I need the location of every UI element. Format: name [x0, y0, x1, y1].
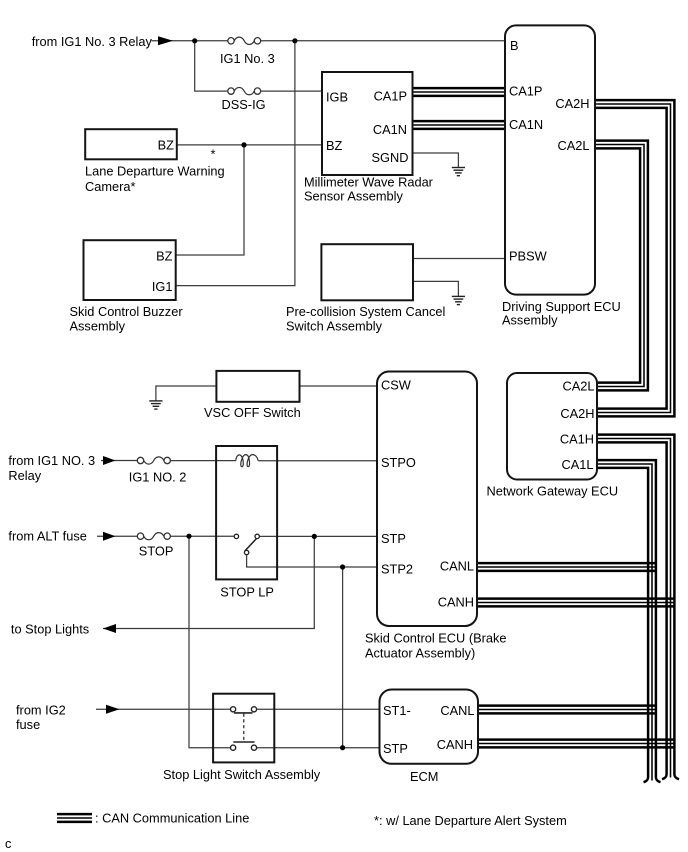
svg-text:CANL: CANL [440, 559, 474, 574]
svg-text:Skid Control Buzzer: Skid Control Buzzer [70, 304, 184, 319]
CAN bus CA1P radar to driving support ECU [413, 88, 506, 96]
wire STP2 branch to ECM STP [342, 567, 344, 748]
wire SGND to ground [413, 153, 459, 167]
arrow from IG1 NO.3 relay [103, 456, 116, 465]
junction node STP [312, 534, 317, 539]
svg-text:Sensor Assembly: Sensor Assembly [304, 189, 403, 204]
svg-text:CANL: CANL [440, 703, 474, 718]
svg-text:fuse: fuse [16, 717, 40, 732]
svg-text:PBSW: PBSW [509, 249, 548, 264]
svg-text:Assembly: Assembly [502, 313, 558, 328]
wire from IG1 No.3 Relay to fuse IG1 No.3 [152, 40, 228, 42]
svg-text:Stop Light Switch Assembly: Stop Light Switch Assembly [163, 767, 321, 782]
wire PBSW [413, 258, 505, 260]
svg-text:CA2L: CA2L [557, 138, 589, 153]
CAN bus CA2L driving support to network gateway [595, 141, 648, 391]
svg-text:IG1 NO. 2: IG1 NO. 2 [129, 470, 187, 485]
junction node top rail / DSS-IG [192, 38, 197, 43]
CAN bus CANH ECM [478, 740, 676, 748]
svg-text:CA1P: CA1P [509, 84, 542, 99]
svg-text:Millimeter Wave Radar: Millimeter Wave Radar [304, 175, 434, 190]
box network gateway ECU [507, 373, 597, 480]
svg-text:ST1-: ST1- [383, 703, 411, 718]
svg-text:CA1N: CA1N [509, 117, 543, 132]
svg-text:STP2: STP2 [381, 562, 413, 577]
legend CAN communication line sample [57, 814, 92, 822]
svg-text:CA2H: CA2H [560, 406, 594, 421]
switch stop light switch contacts [231, 707, 257, 751]
ground VSC OFF switch [149, 401, 162, 409]
ground SGND [452, 168, 465, 176]
CAN bus CANL ECM [478, 706, 657, 714]
svg-text:Camera*: Camera* [85, 179, 136, 194]
arrow from IG2 fuse [106, 705, 120, 714]
svg-text:ECM: ECM [410, 769, 438, 784]
wire switch to ECM STP [257, 747, 380, 749]
fuse DSS-IG [228, 87, 261, 94]
svg-text:Switch Assembly: Switch Assembly [286, 319, 383, 334]
junction node ECM STP [340, 745, 345, 750]
ground cancel switch [452, 296, 465, 304]
svg-text:from IG2: from IG2 [16, 703, 66, 718]
box skid control buzzer assembly [84, 240, 176, 300]
svg-text:STOP: STOP [139, 544, 174, 559]
svg-text:B: B [510, 38, 519, 53]
wire CSW [300, 385, 378, 387]
box VSC OFF switch [216, 371, 299, 402]
box lane departure warning camera [85, 129, 177, 159]
box STOP LP [216, 446, 277, 579]
box skid control ECU brake actuator assembly [377, 372, 477, 627]
svg-text:Skid Control ECU (Brake: Skid Control ECU (Brake [365, 631, 507, 646]
svg-text:: CAN Communication Line: : CAN Communication Line [95, 811, 249, 826]
CAN bus CA1L network gateway down [597, 460, 661, 782]
fuse IG1 No. 3 [228, 37, 261, 44]
svg-text:IGB: IGB [326, 89, 348, 104]
svg-text:VSC OFF Switch: VSC OFF Switch [204, 405, 301, 420]
svg-text:Pre-collision System Cancel: Pre-collision System Cancel [286, 304, 445, 319]
wire VSC OFF switch to ground [156, 386, 217, 401]
box pre-collision system cancel switch assembly [321, 244, 413, 300]
wire from IG1 NO.3 relay to fuse IG1 NO.2 [101, 460, 137, 462]
svg-text:BZ: BZ [156, 249, 173, 264]
svg-text:DSS-IG: DSS-IG [222, 97, 266, 112]
svg-text:STP: STP [381, 531, 406, 546]
wire fuse STOP to stop lp contact [170, 535, 234, 537]
svg-text:STP: STP [383, 741, 408, 756]
svg-text:Assembly: Assembly [70, 319, 126, 334]
svg-text:CSW: CSW [381, 378, 412, 393]
wire fuse IG1 NO.2 to coil [170, 460, 236, 462]
switch STOP LP contacts [234, 534, 259, 555]
wire coil to STPO [258, 460, 377, 462]
box millimeter wave radar sensor assembly [322, 72, 413, 175]
svg-text:CA1P: CA1P [374, 89, 407, 104]
fuse STOP [137, 533, 170, 540]
wire STP branch to stop lights [103, 536, 314, 628]
CAN bus CANL skid control ECU [477, 563, 657, 571]
svg-text:STPO: STPO [381, 455, 416, 470]
junction node BZ [241, 142, 246, 147]
CAN bus CA2H driving support to network gateway [595, 100, 674, 416]
svg-text:BZ: BZ [158, 137, 175, 152]
svg-text:STOP LP: STOP LP [220, 585, 274, 600]
junction node STP2 [340, 564, 345, 569]
svg-text:CA2L: CA2L [562, 379, 594, 394]
wire cancel switch to ground [413, 281, 458, 296]
box stop light switch assembly [213, 694, 274, 763]
svg-text:CANH: CANH [437, 737, 473, 752]
svg-text:Relay: Relay [8, 468, 41, 483]
svg-text:IG1: IG1 [152, 279, 173, 294]
wire from ALT fuse to fuse STOP [97, 535, 137, 537]
wire DSS-IG fuse to IGB pin [261, 90, 322, 92]
CAN bus CA1H network gateway down [597, 435, 679, 780]
svg-text:to Stop Lights: to Stop Lights [11, 622, 89, 637]
arrow from ALT fuse [103, 532, 116, 541]
svg-text:BZ: BZ [326, 138, 343, 153]
wire camera BZ to radar BZ [177, 144, 322, 146]
svg-text:*: w/ Lane Departure Alert Sys: *: w/ Lane Departure Alert System [374, 813, 567, 828]
wire stop lp to STP [259, 535, 377, 537]
CAN bus CA1N radar to driving support ECU [413, 121, 506, 129]
svg-text:CA1H: CA1H [560, 432, 594, 447]
svg-text:from IG1 NO. 3: from IG1 NO. 3 [8, 453, 95, 468]
wire from IG2 fuse to switch [96, 708, 231, 710]
wire STOP branch down to stop light switch [189, 536, 231, 748]
wire IG1 branch vertical to buzzer IG1 [176, 41, 295, 286]
svg-text:Lane Departure Warning: Lane Departure Warning [85, 164, 225, 179]
svg-text:Actuator Assembly): Actuator Assembly) [365, 645, 475, 660]
arrow from IG1 No.3 relay [158, 36, 173, 45]
svg-text:from ALT fuse: from ALT fuse [8, 529, 86, 544]
CAN bus CANH skid control ECU [477, 599, 676, 607]
box ECM [380, 690, 479, 764]
box driving support ECU assembly [505, 25, 595, 294]
svg-text:CA1N: CA1N [373, 122, 407, 137]
svg-text:c: c [5, 836, 12, 851]
svg-text:SGND: SGND [372, 150, 409, 165]
svg-text:IG1 No. 3: IG1 No. 3 [220, 51, 275, 66]
svg-text:CA1L: CA1L [561, 457, 593, 472]
wire branch down to DSS-IG fuse [195, 41, 228, 91]
svg-text:CA2H: CA2H [555, 96, 589, 111]
svg-text:*: * [211, 147, 216, 162]
coil STOP LP relay [236, 455, 258, 467]
junction node STOP fuse [186, 534, 191, 539]
junction node top rail / IG1 branch [292, 38, 297, 43]
wire fuse IG1 No.3 to node B rail [261, 40, 505, 42]
fuse IG1 NO. 2 [137, 457, 170, 464]
svg-text:CANH: CANH [438, 595, 474, 610]
wire stop lp lower contact to STP2 [247, 555, 377, 567]
arrow to stop lights [103, 624, 116, 633]
svg-text:from IG1 No. 3 Relay: from IG1 No. 3 Relay [32, 34, 153, 49]
wire switch to ST1- [257, 708, 380, 710]
svg-text:Network Gateway ECU: Network Gateway ECU [487, 484, 619, 499]
wire BZ branch down [176, 145, 244, 255]
